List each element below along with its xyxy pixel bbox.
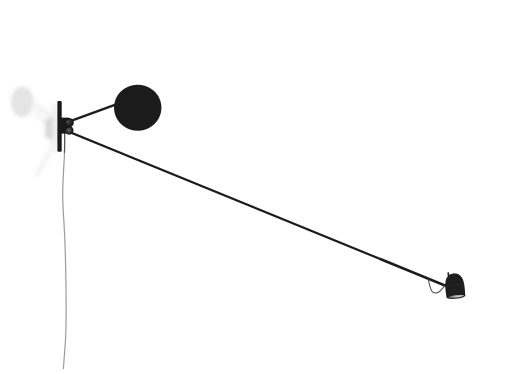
long main arm bbox=[68, 131, 447, 286]
hinge pivot dot upper bbox=[67, 121, 69, 123]
hinge lower knob ring bbox=[67, 128, 71, 132]
wall shadow: hinge blob bbox=[45, 117, 57, 140]
wall shadow: counterweight disc soft shadow bbox=[11, 87, 34, 118]
wall shadow: second faint wedge bbox=[31, 107, 56, 133]
wall shadow: upper arm wedge bbox=[31, 100, 57, 124]
cable loop at lamp head bbox=[428, 279, 445, 293]
counterweight disc bbox=[114, 85, 161, 131]
upper counterweight arm bbox=[67, 103, 121, 123]
wall shadow: long arm faint streak bbox=[37, 140, 57, 176]
finial nub on dome shoulder bbox=[447, 272, 449, 277]
diffuser light crescent bbox=[448, 294, 465, 298]
cable darker top bbox=[63, 133, 65, 153]
hinge upper knob ring bbox=[67, 120, 71, 124]
hinge knob lower bbox=[65, 126, 74, 135]
wall shadow: bracket soft strip bbox=[53, 104, 59, 151]
power cable hanging from hinge bbox=[63, 133, 66, 369]
bottom rim line bbox=[447, 295, 466, 299]
lamp shade bell bbox=[444, 272, 466, 299]
hinge pivot dot lower bbox=[68, 129, 70, 131]
lamp head group bbox=[444, 271, 466, 300]
wall bracket vertical bar bbox=[57, 101, 61, 152]
hinge knob upper bbox=[65, 118, 74, 127]
main arm thicker end segment bbox=[380, 259, 446, 286]
seam line bbox=[445, 284, 464, 286]
hinge block bbox=[61, 118, 70, 134]
